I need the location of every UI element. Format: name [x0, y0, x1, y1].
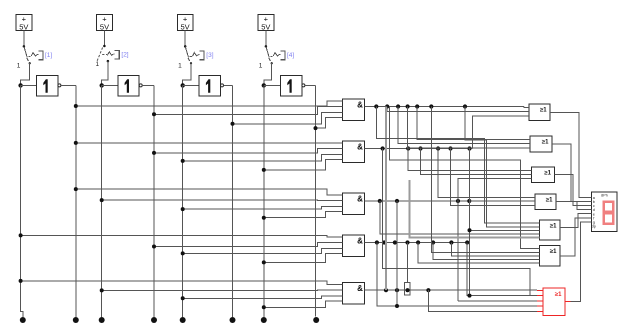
wire row1 tap to O5 pin2 via x486.3: [465, 107, 540, 227]
junction row4 x=433.1: [431, 240, 435, 244]
junction row4 x=418.1: [416, 240, 420, 244]
wire row2 tap to O3 pin2: [421, 149, 532, 175]
wire row3 tap down to node on O7 pin4 line: [396, 201, 398, 306]
junction on bus x=232.5 y=123.8: [231, 122, 235, 126]
svg-text:[4]: [4]: [287, 52, 294, 59]
bus wire /A vertical: [75, 85, 77, 317]
wire row4 tap to O6 pin4: [433, 243, 539, 260]
wire bus x=263.8 to G2 pin 4: [264, 159, 343, 170]
junction x397 y306: [395, 304, 399, 308]
svg-text:dp: dp: [592, 225, 596, 229]
terminal node /A: [73, 317, 79, 323]
svg-text:≥1: ≥1: [544, 171, 551, 177]
wire row2 tap to O3 pin1: [408, 149, 531, 171]
gray bus to O5 pin5: [410, 180, 540, 237]
junction row2 x=382.6: [381, 146, 385, 150]
junction on bus x=263.8 y=262.4: [262, 260, 266, 264]
junction row3 x=458: [456, 199, 460, 203]
wire bus x=154 to G2 pin 2: [154, 149, 343, 153]
wire V1 to switch S1: [23, 31, 25, 47]
svg-text:5V: 5V: [19, 22, 28, 31]
switch S4 (closed): [265, 45, 268, 48]
AND gate G5 (IEC &): [343, 283, 365, 305]
junction on bus x=154 y=246.5: [152, 245, 156, 249]
wire inverter U4 output to bus: [305, 84, 316, 86]
junction row4 x=467.2: [465, 240, 469, 244]
wire row3 tap to O5 pin4: [380, 201, 540, 234]
svg-text:&: &: [357, 237, 363, 246]
wire G2 output row: [365, 148, 473, 150]
OR gate O2 (IEC >=1): [530, 136, 552, 152]
wire row1 to O1 pin1: [524, 107, 529, 108]
junction on bus x=315.5 y=128.1: [314, 126, 318, 130]
svg-text:1: 1: [95, 61, 99, 68]
switch S2 (open): [103, 45, 106, 48]
inverter U3 (IEC 1): [199, 75, 220, 96]
inverter U1 (IEC 1): [37, 75, 58, 96]
svg-text:&: &: [357, 101, 363, 110]
wire bus x=20.6 to G5 pin 1: [21, 281, 343, 285]
junction on bus x=182.7 y=160.9: [181, 159, 185, 163]
wire switch S2 contact to node B: [107, 60, 110, 63]
node C: [181, 83, 185, 87]
wire inverter U2 output to bus: [142, 84, 154, 86]
terminal node /D: [313, 317, 319, 323]
wire O2 output to pin b: [552, 144, 592, 201]
node D: [262, 83, 266, 87]
svg-text:5V: 5V: [100, 22, 109, 31]
red pin stub O7 input 4: [537, 305, 543, 307]
power supply +5V V2: [97, 15, 113, 31]
segments a f b g (upper square of digit 8): [604, 202, 613, 212]
svg-text:≥1: ≥1: [542, 140, 549, 146]
wire node B to inverter U2: [102, 84, 118, 86]
wire bus x=154 to G4 pin 2: [154, 243, 343, 247]
junction row3 x=397: [395, 199, 399, 203]
switch S3 (closed): [184, 45, 187, 48]
junction row2 x=450.5: [448, 146, 452, 150]
wire switch S3 to node C: [190, 62, 192, 64]
OR gate O3 (IEC >=1): [532, 167, 555, 183]
bus wire /C vertical: [232, 85, 234, 317]
svg-text:5V: 5V: [181, 22, 190, 31]
OR gate O4 (IEC >=1): [535, 194, 556, 209]
wire O5 pin3 vertical extension: [469, 230, 471, 295]
junction on bus x=20.6 y=280.9: [19, 279, 23, 283]
junction on bus x=20.6 y=235.4: [19, 233, 23, 237]
wire bus x=101.7 to G5 pin 2: [102, 289, 343, 291]
wire O1 output to pin a: [550, 112, 591, 197]
junction on bus x=263.8 y=169.9: [262, 168, 266, 172]
junction row1 x=398.1: [396, 104, 400, 108]
svg-text:&: &: [357, 284, 363, 293]
junction row1 x=376.3: [374, 104, 378, 108]
svg-text:≥1: ≥1: [550, 249, 557, 255]
junction row5 x=407.5: [405, 288, 409, 292]
junction row2 x=420.5: [418, 146, 422, 150]
wire row2 tap to O5 pin3: [470, 149, 540, 231]
junction row1 x=387.2: [385, 104, 389, 108]
segments e c d (lower square of digit 8): [604, 213, 613, 224]
junction row4 x=407.5: [405, 240, 409, 244]
junction row4 x=376.9: [375, 240, 379, 244]
junction on bus x=101.7 y=290.4: [100, 288, 104, 292]
wire switch S1 to node A: [29, 62, 31, 64]
wire G3 output row: [365, 200, 532, 202]
wire row1 tap to O2 pin1: [417, 107, 530, 140]
bus wire node C vertical: [182, 85, 184, 317]
junction row5 x=386: [384, 288, 388, 292]
OR gate O1 (IEC >=1): [529, 104, 550, 120]
wire bus x=182.7 to G4 pin 3: [183, 249, 343, 254]
gray bus row1 tap down: [385, 107, 387, 291]
terminal node D: [261, 317, 267, 323]
svg-text:&: &: [357, 143, 363, 152]
wire bus x=20.6 to G4 pin 1: [21, 235, 343, 237]
red pin stub O7 output: [565, 301, 571, 303]
terminal node B: [99, 317, 105, 323]
junction row4 x=451.4: [449, 240, 453, 244]
power supply +5V V1: [16, 15, 32, 31]
AND gate G2 (IEC &): [343, 141, 365, 163]
wire O3 output to pin c: [555, 175, 592, 206]
red pin stub O7 input 2: [537, 295, 543, 297]
inverter U4 (IEC 1): [281, 75, 302, 96]
wire O4 output to pin d: [556, 202, 592, 210]
power supply +5V V4: [258, 15, 274, 31]
wire O7 output to pin g: [571, 222, 592, 302]
junction on bus x=75.8 y=189.1: [74, 187, 78, 191]
wire loop jog at row5: [404, 283, 410, 295]
wire bus x=75.8 to G3 pin 1: [76, 189, 343, 195]
svg-text:≥1: ≥1: [546, 198, 553, 204]
wire row4 tap to O6 pin3: [451, 243, 539, 256]
svg-text:&: &: [357, 195, 363, 204]
wire bus x=263.8 to G3 pin 4: [264, 211, 343, 217]
wire bus x=75.8 to G1 pin 1: [76, 101, 343, 106]
svg-text:≥1: ≥1: [540, 108, 547, 114]
junction x469.5 y295.6: [468, 294, 472, 298]
wire bus x=232.5 to G1 pin 3: [233, 113, 343, 124]
red pin stub O7 input 3: [537, 300, 543, 302]
junction row5 x=428.4: [426, 288, 430, 292]
wire row3 tap down to O7 pin3: [458, 300, 537, 302]
7-segment display DIS1: [592, 192, 618, 232]
wire row2 end rise to O1 pin3: [473, 116, 529, 149]
red pin stub O7 input 1: [537, 289, 543, 291]
node B: [100, 83, 104, 87]
junction row2 x=469.5: [467, 146, 471, 150]
junction on bus x=182.7 y=253.4: [181, 251, 185, 255]
AND gate G1 (IEC &): [343, 99, 365, 121]
OR gate O6 (IEC >=1): [540, 246, 561, 267]
terminal node /C: [230, 317, 236, 323]
bus wire /D vertical: [315, 85, 317, 316]
red pin stub O7 input 5: [537, 311, 543, 313]
wire bus x=263.8 to G5 pin 4: [264, 301, 343, 308]
wire V4 to switch S4: [265, 31, 267, 47]
wire row1 tap to O5 pin1 via x484.5: [376, 107, 539, 223]
junction row1 x=407.6: [406, 104, 410, 108]
AND gate G3 (IEC &): [343, 193, 365, 215]
svg-text:1: 1: [259, 63, 263, 70]
junction row4 x=384.2: [382, 240, 386, 244]
power supply +5V V3: [177, 15, 193, 31]
svg-text:[2]: [2]: [121, 52, 128, 59]
wire V3 to switch S3: [184, 31, 186, 47]
inverter U2 (IEC 1): [118, 75, 139, 96]
wire bus x=182.7 to G5 pin 3: [183, 296, 343, 298]
junction on bus x=182.7 y=298.3: [181, 296, 185, 300]
wire node D to inverter U4: [264, 84, 281, 86]
junction on bus x=101.7 y=200.1: [100, 198, 104, 202]
svg-text:[3]: [3]: [206, 52, 213, 59]
wire O5 output to pin e: [560, 214, 592, 228]
svg-text:≥1: ≥1: [555, 292, 562, 298]
junction on bus x=263.8 y=307.3: [262, 305, 266, 309]
junction row3 x=469.3: [467, 199, 471, 203]
wire bus x=315.5 to G1 pin 4: [316, 117, 343, 128]
junction row2 x=438.1: [436, 146, 440, 150]
svg-text:[1]: [1]: [45, 52, 52, 59]
wire bus x=154 to G1 pin 2: [154, 107, 343, 115]
bus wire /B vertical: [153, 85, 155, 317]
junction row1 x=465: [463, 104, 467, 108]
junction row4 x=394.9: [393, 240, 397, 244]
junction row1 x=431.3: [429, 104, 433, 108]
wire row4 tap into loop: [407, 243, 409, 283]
junction row1 x=417.2: [415, 104, 419, 108]
junction row2 x=408.2: [406, 146, 410, 150]
terminal node /B: [151, 317, 157, 323]
junction on bus x=154 y=152.9: [152, 151, 156, 155]
junction on bus x=182.7 y=209.1: [181, 207, 185, 211]
svg-text:1: 1: [17, 63, 21, 70]
switch S1 (closed): [23, 45, 26, 48]
wire row4 tap to O7 pin4: [377, 243, 537, 307]
wire row4 tap to O7 pin2 branch: [467, 243, 530, 296]
OR gate O7 selected (red): [543, 288, 565, 316]
svg-text:8Ph: 8Ph: [601, 193, 608, 197]
wire V2 to switch S2: [104, 31, 106, 47]
OR gate O5 (IEC >=1): [540, 220, 561, 240]
wire G5 output row: [365, 289, 538, 291]
junction on bus x=154 y=114.3: [152, 112, 156, 116]
wire bus x=75.8 to G2 pin 1: [76, 142, 343, 144]
svg-text:5V: 5V: [261, 22, 270, 31]
wire gray tap long to O6 pin1: [389, 107, 539, 249]
wire bus x=263.8 to G4 pin 4: [264, 253, 343, 262]
node A: [18, 83, 22, 87]
wire inverter U3 output to bus: [224, 84, 233, 86]
AND gate G4 (IEC &): [343, 235, 365, 257]
junction on bus x=75.8 y=106: [74, 104, 78, 108]
wire row1 tap to O1 pin2: [387, 107, 529, 112]
wire bus x=101.7 to G3 pin 2: [102, 199, 343, 201]
wire node A to inverter U1: [21, 84, 37, 86]
wire bus x=182.7 to G2 pin 3: [183, 155, 343, 161]
wire G4 output row: [365, 242, 468, 244]
wire row5 tap to O7 pin5: [428, 290, 537, 311]
junction row5 x=397: [395, 288, 399, 292]
bus wire node D vertical: [263, 85, 265, 317]
wire row2 tap to O4 pin1: [438, 149, 535, 198]
svg-text:≥1: ≥1: [550, 224, 557, 230]
wire row2 tap to O7 pin2: [383, 149, 538, 296]
bus wire node A vertical: [21, 85, 23, 317]
wire G1 output row: [365, 106, 525, 108]
junction on bus x=75.8 y=142.9: [74, 141, 78, 145]
terminal node C: [180, 317, 186, 323]
wire bus x=182.7 to G3 pin 3: [183, 207, 343, 210]
wire inverter U1 output to bus: [61, 84, 76, 86]
wire O6 output to pin f: [560, 218, 592, 256]
wire row3 tap rise to O3 pin3: [458, 179, 532, 301]
bus wire node B vertical: [101, 85, 103, 317]
junction x469.5 y230.3: [468, 228, 472, 232]
wire row1 tap long to O6 pin2: [431, 107, 539, 253]
wire switch S4 to node D: [271, 62, 273, 64]
wire node C to inverter U3: [183, 84, 200, 86]
wire row1 tap to O2 pin3: [408, 107, 530, 148]
junction on bus x=263.8 y=217.7: [262, 216, 266, 220]
wire row3 to O4 pin2: [469, 200, 535, 202]
wire row4 tap to O6 pin5: [418, 243, 539, 263]
terminal node A: [20, 317, 26, 323]
wire row1 tap to O2 pin2: [398, 107, 530, 144]
wire row2 tap to O4 pin3: [451, 149, 536, 206]
svg-text:1: 1: [178, 63, 182, 70]
junction row3 x=379.8: [378, 199, 382, 203]
